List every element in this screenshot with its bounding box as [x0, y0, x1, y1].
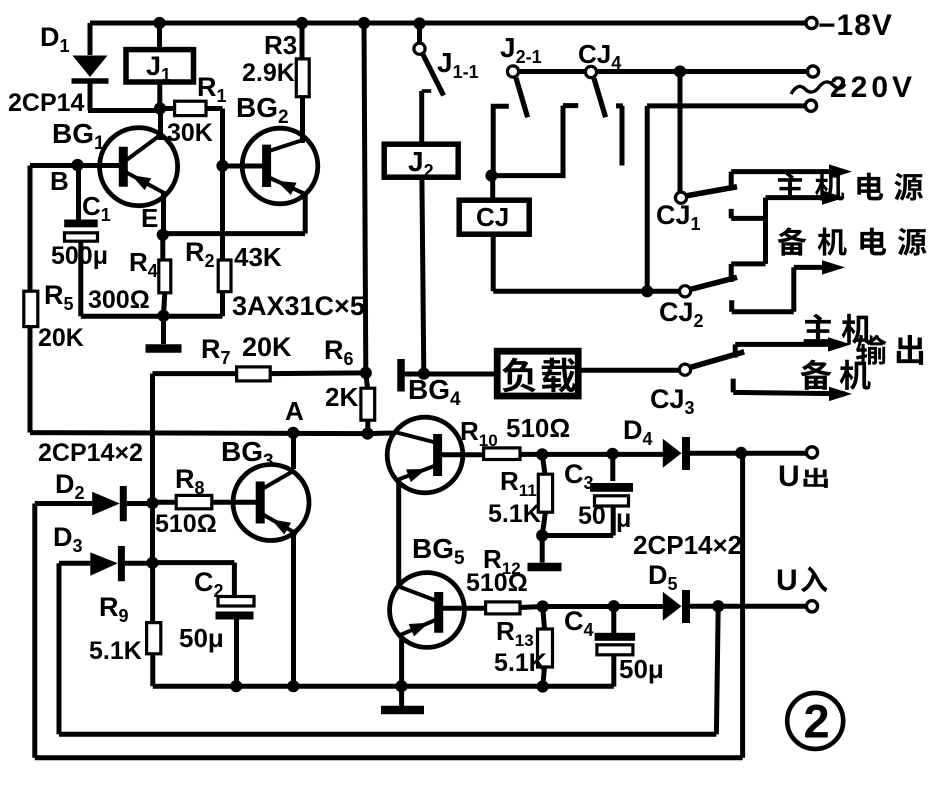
junction D3/R9/C2 row: [146, 557, 158, 569]
wire 220V rail lower: [647, 103, 805, 108]
junction R6 bottom / BG4 base row: [362, 428, 374, 440]
junction top rail / R3: [296, 17, 308, 29]
wire top -18V rail: [90, 21, 807, 26]
wire BG2 base: [223, 164, 263, 169]
node B junction: [71, 159, 83, 171]
wire R7 left: [153, 371, 237, 376]
wire C1 down and right to R4 bottom: [81, 241, 223, 316]
wire D3 cathode to node: [125, 561, 153, 566]
wire BG5 tap to R12: [441, 606, 486, 611]
resistor R13: [538, 629, 553, 667]
wire R2 bottom: [220, 292, 225, 317]
contact pivot CJ4: [585, 66, 596, 77]
wire R11 to ground node: [542, 512, 545, 535]
wire bracket to CJ coil: [490, 176, 495, 201]
wire BG3 bottom vertical: [291, 534, 296, 687]
wire D2 anode from left loop: [35, 501, 92, 506]
svg-text:2.9K: 2.9K: [242, 59, 295, 87]
junction CJ2 drop: [641, 285, 653, 297]
resistor R10: [484, 448, 520, 460]
label output 输出: [856, 335, 887, 365]
relay coil CJ: [459, 200, 529, 234]
wire rail to J1 top: [157, 23, 162, 50]
wire A to BG3 top: [291, 433, 296, 469]
junction R11/C3 bottom: [536, 529, 548, 541]
svg-text:2K: 2K: [325, 382, 358, 412]
wire D5 to U-in: [690, 604, 806, 609]
label standby power 备机电源: [778, 227, 807, 255]
terminal -18V: [806, 17, 817, 28]
wire node to R1: [160, 106, 175, 111]
contact pivot CJ3: [679, 364, 690, 375]
wire BG4 tap to R10: [440, 452, 484, 457]
wire node to R6: [366, 373, 368, 388]
wire J2 coil to load line: [422, 177, 424, 374]
svg-text:220V: 220V: [830, 71, 916, 104]
contact blade CJ1: [687, 187, 737, 196]
resistor R8: [176, 495, 212, 508]
wire B to C1: [76, 165, 81, 220]
contact pivot CJ1: [675, 192, 686, 203]
svg-text:U: U: [778, 460, 800, 493]
junction D5 out / feedback: [712, 600, 724, 612]
contact bracket J2-1/CJ4: [493, 106, 578, 176]
wire 220V lower drop to CJ2: [645, 106, 650, 291]
svg-text:50: 50: [578, 502, 606, 530]
junction J2 line / load wire: [418, 368, 430, 380]
svg-text:−18V: −18V: [818, 9, 893, 42]
svg-text:μ: μ: [616, 505, 631, 533]
resistor R2: [218, 260, 231, 292]
wire R12 to D5: [520, 607, 663, 608]
wire R1-R2 vertical: [220, 109, 225, 261]
contact stub CJ4 second: [616, 106, 623, 166]
contact fixed tick J1-1: [422, 89, 432, 93]
contact blade CJ4: [594, 79, 606, 118]
wire D3 anode from left loop: [59, 561, 90, 566]
junction top rail / J1-1: [413, 17, 425, 29]
node E junction: [157, 229, 169, 241]
svg-text:30K: 30K: [167, 119, 213, 147]
relay coil J1: [126, 50, 194, 82]
junction bracket / CJ coil: [485, 170, 497, 182]
transistor BG1: [100, 128, 178, 206]
contact throw CJ1 upper + wire: [731, 172, 829, 187]
wire C4 to rail: [611, 655, 616, 687]
svg-text:2: 2: [804, 695, 830, 748]
svg-text:50μ: 50μ: [179, 623, 224, 653]
capacitor C4: [595, 633, 636, 641]
junction BG3/rail: [287, 680, 299, 692]
junction C4 top tap: [608, 600, 620, 612]
svg-text:R3: R3: [264, 30, 297, 60]
wire node A row: [30, 433, 368, 434]
wire A row to BG4: [368, 431, 396, 437]
svg-text:2CP14×2: 2CP14×2: [633, 530, 742, 560]
junction C2/rail: [230, 680, 242, 692]
node A: [287, 427, 299, 439]
resistor R4: [159, 260, 171, 293]
wire R10 node to R11: [542, 454, 545, 474]
wire R10 to D4: [520, 452, 663, 457]
terminal 220V upper: [807, 66, 818, 77]
ground below R4: [146, 344, 182, 353]
svg-text:510Ω: 510Ω: [155, 510, 217, 538]
resistor R6: [361, 388, 375, 420]
svg-text:510Ω: 510Ω: [466, 569, 528, 597]
svg-text:5.1K: 5.1K: [488, 500, 541, 528]
relay coil J2: [384, 144, 458, 177]
svg-text:5.1K: 5.1K: [494, 649, 547, 677]
ground below R11: [528, 563, 562, 572]
arrow main-power-1: [829, 164, 852, 178]
contact pivot CJ2: [679, 286, 690, 297]
svg-text:20K: 20K: [242, 332, 292, 362]
wire BG1 emitter down to E: [161, 192, 166, 235]
junction BG5-ground/rail: [395, 680, 407, 692]
junction R12/R13: [537, 600, 549, 612]
diode D1: [73, 56, 108, 78]
junction R13/rail: [537, 680, 549, 692]
capacitor C1: [64, 220, 98, 228]
wire R8 to BG3 base: [212, 500, 256, 505]
contact throw CJ1 lower + link: [731, 198, 822, 264]
wire R7 right to node: [270, 370, 366, 376]
contact pivot J2-1: [507, 66, 518, 77]
junction R1/R2/BG2 base: [216, 160, 228, 172]
junction D1/J1/R1/BG1 node: [154, 102, 166, 114]
arrow standby-power: [822, 260, 845, 274]
wire J1 bottom to node: [157, 82, 162, 109]
wire C3 top to row: [610, 454, 615, 481]
transistor BG3: [233, 465, 309, 541]
wire R9 to ground rail: [150, 654, 155, 686]
wire BG1 collector up: [158, 109, 163, 141]
svg-text:U: U: [776, 564, 798, 597]
wire R12 node to R13: [543, 607, 545, 630]
svg-text:B: B: [50, 166, 69, 196]
label load 负载: [502, 358, 536, 393]
resistor R9: [147, 623, 161, 654]
wire D3 feedback loop: [59, 563, 718, 734]
resistor R7: [237, 367, 271, 381]
wire 220V rail upper: [519, 69, 808, 74]
capacitor C3: [590, 483, 633, 492]
svg-text:500μ: 500μ: [51, 242, 108, 270]
junction R10/R11: [536, 448, 548, 460]
diode D3: [90, 552, 118, 575]
capacitor C2: [218, 597, 254, 607]
load box 负载: [497, 351, 578, 396]
wire D2 cathode to node: [127, 501, 153, 506]
resistor R11: [538, 474, 552, 512]
svg-text:50μ: 50μ: [619, 654, 664, 684]
collector tap bar BG4: [397, 359, 405, 392]
wire R13 to rail: [543, 667, 545, 687]
wire D1 cathode to J1 node: [88, 83, 160, 111]
svg-text:20K: 20K: [38, 324, 84, 352]
wire CJ coil to CJ2 pivot: [493, 234, 679, 291]
svg-text:2CP14×2: 2CP14×2: [38, 439, 143, 467]
wire R3 to BG2 collector: [300, 97, 305, 143]
transistor BG2: [242, 128, 318, 204]
figure number circled 2: [787, 693, 843, 749]
wire R7 vertical down: [150, 374, 155, 563]
wire to ground 1: [161, 316, 166, 344]
wire D2 feedback loop: [35, 453, 743, 758]
wire C4 top lead: [611, 606, 616, 633]
transistor BG5: [390, 573, 465, 648]
arrow main-power-2: [822, 190, 845, 204]
label standby 备机: [801, 360, 832, 390]
junction top rail / J1: [153, 17, 165, 29]
wire rail to R3: [300, 23, 305, 59]
resistor R5: [24, 291, 38, 326]
junction D2/R8/R7-vertical: [146, 497, 158, 509]
label U-out 出: [804, 468, 828, 488]
contact pivot J1-1: [414, 43, 425, 54]
contact throw CJ2 upper + link: [731, 264, 765, 282]
transistor BG4: [387, 417, 463, 493]
label main power 主机电源: [777, 172, 804, 199]
wire long vertical rail to R6/R7 node: [364, 23, 366, 373]
svg-text:A: A: [285, 396, 304, 426]
wire common bottom rail: [153, 684, 614, 689]
junction R7/R6/long vertical: [360, 367, 372, 379]
svg-text:3AX31C×5: 3AX31C×5: [232, 291, 365, 321]
label tilde 220V: [791, 82, 845, 94]
resistor R12: [486, 602, 520, 614]
svg-text:CJ: CJ: [476, 202, 509, 232]
contact throw CJ3 upper + wire: [735, 344, 828, 357]
wire rail to J1-1: [417, 23, 422, 43]
wire R11 node to C3 bottom: [542, 505, 613, 536]
svg-text:2CP14: 2CP14: [8, 89, 85, 117]
wire node to R8: [153, 500, 177, 505]
contact throw CJ2 lower + link: [732, 267, 822, 311]
wire C2 to ground rail: [234, 620, 239, 687]
junction R4/C1/ground: [157, 310, 169, 322]
svg-text:5.1K: 5.1K: [89, 637, 142, 665]
contact throw CJ3 lower + wire: [733, 379, 845, 394]
resistor R1: [175, 101, 206, 115]
wire E to R4: [160, 235, 165, 260]
wire load to CJ3: [578, 368, 679, 373]
wire BG5 collector down: [399, 639, 404, 687]
wire R5 branch vertical: [28, 166, 33, 433]
wire R6 to A row: [365, 420, 370, 433]
wire ground stem R11: [540, 536, 545, 563]
contact blade CJ2: [691, 277, 737, 289]
ground below BG5: [381, 706, 424, 715]
terminal U-in: [806, 601, 817, 612]
arrow standby-output: [829, 387, 852, 401]
wire E to BG2 emitter: [163, 231, 305, 236]
label main 主机: [804, 314, 833, 343]
junction top rail / long vertical: [358, 17, 370, 29]
contact blade J2-1: [516, 78, 528, 117]
label U-in 入: [801, 566, 827, 592]
wire D4 to U-out: [690, 451, 806, 456]
wire J1-1 to J2 coil: [419, 91, 424, 144]
wire R1 to BG2 base line: [206, 106, 223, 111]
wire D3 row to C2: [153, 563, 235, 597]
terminal U-out: [806, 447, 817, 458]
wire BG4 emitter to BG5: [396, 479, 401, 589]
wire 220V upper drop to CJ1: [678, 72, 683, 193]
svg-text:E: E: [141, 203, 158, 233]
diode D4: [663, 439, 682, 468]
contact blade CJ3: [691, 352, 745, 368]
diode D2: [92, 492, 120, 516]
wire tap bar to load box: [404, 372, 497, 377]
svg-text:300Ω: 300Ω: [88, 286, 150, 314]
wire D1 anode from rail: [88, 23, 93, 55]
resistor R3: [296, 59, 309, 97]
junction C3 top tap: [607, 448, 619, 460]
contact blade J1-1: [423, 55, 444, 96]
wire R4 to bottom node: [164, 293, 165, 316]
svg-text:43K: 43K: [234, 242, 282, 272]
terminal 220V lower: [805, 100, 816, 111]
arrow main-output: [828, 337, 851, 351]
wire BG2 emitter down: [303, 194, 308, 234]
svg-text:510Ω: 510Ω: [506, 413, 570, 443]
junction D4 out / feedback: [735, 447, 747, 459]
junction 220V rail / CJ1 drop: [674, 65, 686, 77]
diode D5: [663, 592, 682, 621]
wire B node line: [30, 163, 119, 168]
wire ground stem BG5: [399, 686, 404, 708]
wire node to R9: [150, 563, 155, 623]
